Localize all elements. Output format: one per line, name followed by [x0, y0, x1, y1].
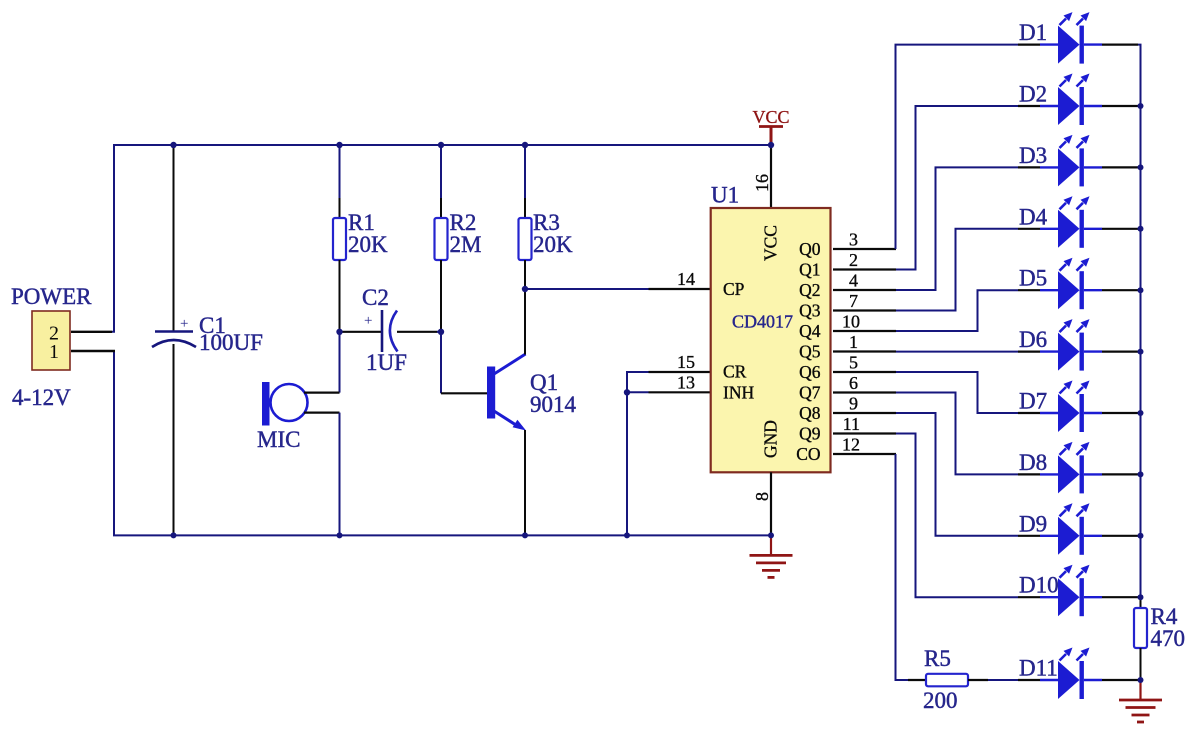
wire R2 column to Q1 base — [440, 332, 442, 394]
junction R2 top — [438, 142, 444, 148]
svg-text:7: 7 — [849, 291, 858, 311]
svg-text:D5: D5 — [1019, 266, 1047, 291]
LED D8 — [1018, 442, 1138, 494]
svg-text:D2: D2 — [1019, 82, 1047, 107]
svg-text:12: 12 — [842, 435, 860, 455]
microphone MIC — [262, 382, 340, 426]
pin 12 stub CO — [833, 453, 896, 455]
LED D6 — [1018, 319, 1138, 371]
svg-text:14: 14 — [677, 269, 695, 289]
svg-text:10: 10 — [842, 312, 860, 332]
svg-text:Q3: Q3 — [799, 301, 821, 321]
wire CR INH vertical — [627, 372, 649, 535]
junction R3 top — [522, 142, 528, 148]
wire pin14 to R3 column — [525, 288, 649, 290]
LED D10 — [1018, 565, 1138, 617]
svg-text:20K: 20K — [348, 232, 388, 257]
junction CR INH node — [624, 532, 630, 538]
junction MIC bottom — [337, 532, 343, 538]
power symbol VCC — [752, 107, 789, 146]
svg-text:20K: 20K — [533, 232, 573, 257]
svg-text:9014: 9014 — [530, 392, 577, 417]
svg-text:VCC: VCC — [761, 225, 781, 261]
resistor R2 — [435, 145, 448, 332]
svg-text:Q0: Q0 — [799, 239, 821, 259]
svg-text:1UF: 1UF — [366, 350, 407, 375]
svg-text:Q7: Q7 — [799, 383, 821, 403]
svg-text:D11: D11 — [1019, 656, 1058, 681]
junction R1 top — [336, 142, 342, 148]
junction C1 top — [170, 142, 176, 148]
junction VCC node — [768, 142, 774, 148]
wire Q4 pin10 to D5 — [896, 290, 1018, 331]
resistor R4 — [1134, 597, 1147, 680]
svg-text:D10: D10 — [1019, 573, 1059, 598]
svg-text:D6: D6 — [1019, 327, 1047, 352]
svg-text:D7: D7 — [1019, 389, 1047, 414]
right rail — [1138, 45, 1141, 680]
svg-text:CP: CP — [723, 279, 745, 299]
resistor R5 — [908, 674, 988, 687]
transistor Q1 — [441, 289, 526, 535]
svg-text:Q6: Q6 — [799, 362, 821, 382]
svg-text:4-12V: 4-12V — [12, 385, 71, 410]
ground at right rail bottom — [1119, 680, 1162, 722]
svg-text:POWER: POWER — [11, 284, 92, 309]
wire pin13 — [627, 391, 649, 393]
capacitor C2 — [340, 310, 441, 352]
wire Q5 pin1 to D6 — [896, 351, 1018, 353]
wire Q1 pin2 to D2 — [896, 106, 1018, 270]
svg-text:R5: R5 — [924, 646, 951, 671]
svg-text:MIC: MIC — [257, 427, 300, 452]
svg-text:3: 3 — [849, 230, 858, 250]
svg-text:CO: CO — [796, 444, 820, 464]
svg-text:D1: D1 — [1019, 20, 1047, 45]
pin 5 stub Q6 — [833, 371, 896, 373]
svg-text:Q9: Q9 — [799, 424, 821, 444]
resistor R1 — [333, 145, 346, 332]
wire Q3 pin7 to D4 — [896, 229, 1018, 311]
pin 7 stub Q3 — [833, 309, 896, 311]
pin 2 stub Q1 — [833, 268, 896, 270]
wire R5 to D11 — [988, 679, 1018, 681]
wire Q6 pin5 to D7 — [896, 372, 1018, 413]
svg-text:100UF: 100UF — [199, 330, 263, 355]
pin 6 stub Q7 — [833, 391, 896, 393]
svg-text:+: + — [364, 313, 372, 329]
LED D4 — [1018, 196, 1138, 248]
LED D3 — [1018, 135, 1138, 187]
svg-text:9: 9 — [849, 394, 858, 414]
svg-text:Q5: Q5 — [799, 342, 821, 362]
svg-text:200: 200 — [923, 688, 958, 713]
svg-text:11: 11 — [843, 414, 860, 434]
svg-text:8: 8 — [752, 492, 772, 501]
IC U1 CD4017 — [711, 145, 831, 535]
wire Q9 pin11 to D10 — [896, 434, 1018, 598]
svg-text:D4: D4 — [1019, 204, 1048, 229]
wire Q7 pin6 to D8 — [896, 393, 1018, 475]
junction C2 left node — [336, 329, 342, 335]
pin 4 stub Q2 — [833, 289, 896, 291]
svg-text:D8: D8 — [1019, 450, 1047, 475]
svg-text:470: 470 — [1151, 626, 1186, 651]
wire top rail with left riser from POWER pin 2 — [112, 145, 771, 332]
svg-text:4: 4 — [849, 271, 858, 291]
svg-text:Q8: Q8 — [799, 403, 821, 423]
LED D1 — [1018, 12, 1138, 64]
wire Q2 pin4 to D3 — [896, 167, 1018, 290]
pin 1 stub Q5 — [833, 350, 896, 352]
svg-text:GND: GND — [761, 420, 781, 458]
resistor R3 — [519, 145, 532, 289]
svg-text:16: 16 — [752, 174, 772, 192]
wire Q8 pin9 to D9 — [896, 413, 1018, 536]
svg-text:1: 1 — [849, 332, 858, 352]
svg-text:Q2: Q2 — [799, 280, 820, 300]
svg-text:Q4: Q4 — [799, 321, 821, 341]
svg-text:1: 1 — [49, 341, 59, 363]
junction dot pin14 node — [522, 286, 528, 292]
LED D9 — [1018, 503, 1138, 555]
svg-text:C2: C2 — [362, 285, 389, 310]
svg-text:INH: INH — [723, 382, 754, 402]
connector POWER pin 1 wire — [71, 350, 115, 352]
pin 9 stub Q8 — [833, 412, 896, 414]
svg-text:CR: CR — [723, 362, 747, 382]
svg-text:+: + — [180, 316, 188, 332]
LED D7 — [1018, 381, 1138, 433]
svg-text:5: 5 — [849, 353, 858, 373]
junction Q1 emitter node — [522, 532, 528, 538]
connector POWER — [32, 311, 70, 370]
junction C1 bottom — [171, 532, 177, 538]
connector POWER pin 2 wire — [71, 331, 112, 333]
junction dot pin13 node — [624, 389, 630, 395]
svg-text:D9: D9 — [1019, 511, 1047, 536]
pin 11 stub Q9 — [833, 432, 896, 434]
svg-text:15: 15 — [677, 352, 695, 372]
svg-text:U1: U1 — [711, 183, 739, 208]
junction GND node — [768, 532, 774, 538]
pin 10 stub Q4 — [833, 330, 896, 332]
svg-text:2M: 2M — [450, 232, 482, 257]
junction C2 right node — [438, 329, 444, 335]
LED D5 — [1018, 258, 1138, 310]
svg-text:6: 6 — [849, 373, 858, 393]
wire MIC bottom to ground rail — [339, 413, 341, 536]
pin 3 stub Q0 — [833, 248, 896, 250]
LED D2 — [1018, 74, 1138, 126]
LED D11 — [1018, 648, 1138, 700]
svg-text:CD4017: CD4017 — [732, 312, 793, 332]
capacitor C1 — [152, 145, 196, 535]
svg-text:2: 2 — [849, 250, 858, 270]
svg-text:VCC: VCC — [752, 107, 789, 127]
junctions on right LED rail D2-D11 — [1138, 103, 1144, 109]
wire bottom rail with left riser from POWER pin 1 — [112, 351, 771, 535]
svg-text:13: 13 — [677, 372, 695, 392]
svg-text:D3: D3 — [1019, 143, 1047, 168]
ground under IC pin 8 — [750, 535, 793, 577]
wire Q0 pin3 to D1 — [896, 45, 1019, 249]
wire CO pin12 to R5 — [896, 454, 909, 680]
svg-text:Q1: Q1 — [799, 260, 820, 280]
wire R1 column to MIC — [339, 332, 341, 393]
